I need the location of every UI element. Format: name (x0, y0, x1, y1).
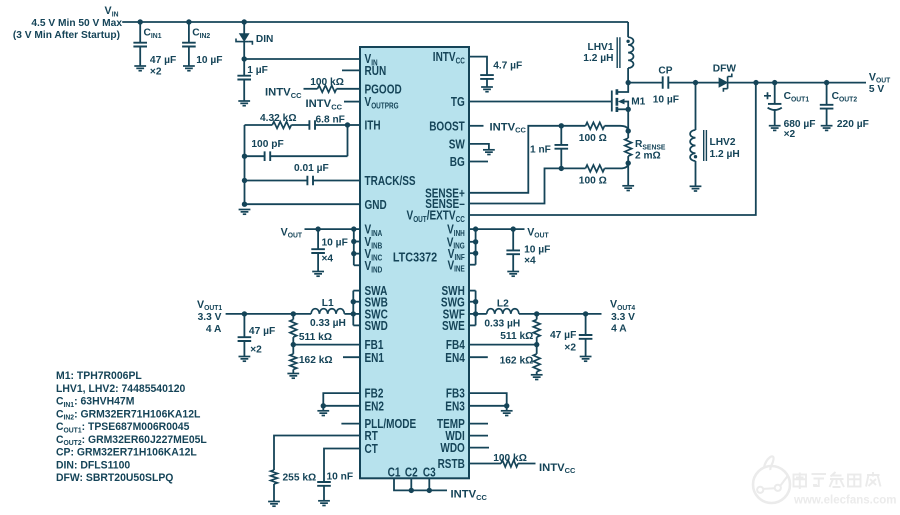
svg-text:CC: CC (476, 493, 487, 502)
svg-text:PGOOD: PGOOD (365, 82, 402, 96)
svg-text:DIN: DIN (256, 33, 274, 45)
svg-text:EN3: EN3 (445, 399, 465, 413)
svg-text:INA: INA (371, 229, 382, 238)
svg-text:0.33 µH: 0.33 µH (310, 317, 346, 329)
svg-text:OUT2: OUT2 (839, 96, 857, 103)
svg-text:47 µF: 47 µF (150, 54, 177, 66)
svg-text:CC: CC (291, 91, 302, 100)
svg-text:C3: C3 (423, 465, 436, 479)
svg-text:OUT1: OUT1 (791, 96, 809, 103)
svg-text:4.7 µF: 4.7 µF (493, 60, 523, 72)
svg-text:255 kΩ: 255 kΩ (283, 472, 317, 484)
svg-text:1.2 µH: 1.2 µH (710, 148, 740, 160)
svg-text:INC: INC (371, 254, 382, 263)
svg-text:TG: TG (451, 95, 465, 109)
svg-text:RT: RT (365, 429, 379, 443)
svg-text:3.3 V: 3.3 V (611, 311, 635, 323)
svg-text:SW: SW (449, 138, 465, 152)
svg-text:CC: CC (456, 215, 465, 224)
svg-text:1 nF: 1 nF (530, 144, 551, 156)
svg-text:C2: C2 (405, 465, 418, 479)
svg-text:CC: CC (565, 466, 576, 475)
svg-text:1.2 µH: 1.2 µH (583, 52, 613, 64)
svg-text:10 µF: 10 µF (653, 93, 680, 105)
svg-text:DFW: DFW (713, 63, 736, 75)
svg-text:IND: IND (371, 265, 382, 274)
svg-text:CC: CC (456, 57, 465, 66)
svg-text:10 µF: 10 µF (322, 237, 349, 249)
svg-text:RSTB: RSTB (438, 457, 465, 471)
svg-text:IN2: IN2 (200, 33, 211, 40)
svg-text:OUT1: OUT1 (64, 425, 82, 434)
svg-text:CC: CC (515, 126, 526, 135)
svg-text:INB: INB (371, 242, 382, 251)
svg-text:×2: ×2 (150, 65, 162, 77)
svg-text:www.elecfans.com: www.elecfans.com (793, 495, 896, 507)
svg-text:INE: INE (454, 265, 465, 274)
svg-text:LHV2: LHV2 (710, 136, 736, 148)
svg-text:OUT: OUT (534, 233, 549, 240)
svg-text:100 pF: 100 pF (251, 138, 284, 150)
svg-text:6.8 nF: 6.8 nF (316, 113, 346, 125)
svg-text:CP: CP (658, 65, 672, 77)
svg-text:GND: GND (365, 198, 387, 212)
svg-text:100 kΩ: 100 kΩ (310, 76, 344, 88)
svg-text:100 kΩ: 100 kΩ (493, 452, 527, 464)
svg-text:INTV: INTV (539, 462, 565, 474)
svg-text:0.33 µH: 0.33 µH (484, 317, 520, 329)
svg-text:×2: ×2 (250, 343, 262, 355)
svg-text:EN2: EN2 (365, 399, 385, 413)
svg-text:IN1: IN1 (151, 33, 162, 40)
svg-text:LHV1, LHV2: 74485540120: LHV1, LHV2: 74485540120 (56, 383, 185, 395)
svg-text:IN2: IN2 (64, 413, 75, 422)
svg-text:×2: ×2 (784, 128, 796, 140)
svg-text:TRACK/SS: TRACK/SS (365, 174, 416, 188)
svg-text:LTC3372: LTC3372 (393, 249, 437, 264)
svg-text:ING: ING (453, 242, 464, 251)
svg-text:M1: M1 (631, 96, 645, 108)
svg-text:: TPSE687M006R0045: : TPSE687M006R0045 (82, 421, 190, 433)
svg-text:CT: CT (365, 442, 379, 456)
svg-text:511 kΩ: 511 kΩ (500, 330, 533, 342)
svg-text:220 µF: 220 µF (837, 118, 869, 130)
svg-text:SWE: SWE (442, 319, 465, 333)
svg-text:×4: ×4 (524, 254, 536, 266)
svg-text:C1: C1 (388, 465, 401, 479)
svg-text:4 A: 4 A (206, 323, 222, 335)
svg-text:: GRM32ER71H106KA12L: : GRM32ER71H106KA12L (74, 408, 201, 420)
svg-text:WDO: WDO (440, 441, 465, 455)
svg-text:BOOST: BOOST (429, 119, 465, 133)
svg-text:INF: INF (455, 253, 465, 262)
svg-text:4.5 V Min 50 V Max: 4.5 V Min 50 V Max (31, 17, 122, 29)
svg-text:10 nF: 10 nF (327, 471, 354, 483)
svg-text:INTV: INTV (306, 98, 332, 110)
svg-text:CC: CC (331, 103, 342, 112)
svg-text:INTV: INTV (451, 489, 477, 501)
svg-text:L2: L2 (497, 297, 509, 309)
svg-text:162 kΩ: 162 kΩ (299, 354, 333, 366)
svg-text:INTV: INTV (265, 86, 291, 98)
svg-text:162 kΩ: 162 kΩ (500, 355, 534, 367)
svg-text:RUN: RUN (365, 64, 387, 78)
svg-text:DIN: DFLS1100: DIN: DFLS1100 (56, 459, 130, 471)
svg-text:2 mΩ: 2 mΩ (635, 150, 661, 162)
svg-text:IN1: IN1 (64, 400, 75, 409)
svg-text:OUTPRG: OUTPRG (371, 102, 398, 111)
svg-text:SWD: SWD (365, 319, 388, 333)
svg-text:×2: ×2 (564, 341, 576, 353)
svg-text:×4: ×4 (322, 253, 334, 265)
svg-text:1 µF: 1 µF (247, 64, 268, 76)
svg-text:EN4: EN4 (445, 351, 465, 365)
svg-text:/EXTV: /EXTV (427, 209, 456, 223)
svg-text:4.32 kΩ: 4.32 kΩ (260, 112, 297, 124)
svg-text:OUT: OUT (413, 215, 427, 224)
svg-text:(3 V Min After Startup): (3 V Min After Startup) (13, 29, 120, 41)
svg-text:OUT: OUT (288, 233, 303, 240)
svg-text:10 µF: 10 µF (196, 54, 223, 66)
svg-text:100 Ω: 100 Ω (579, 175, 607, 187)
svg-text:0.01 µF: 0.01 µF (294, 162, 329, 174)
svg-text:47 µF: 47 µF (550, 329, 577, 341)
svg-text:BG: BG (450, 155, 465, 169)
svg-text:511 kΩ: 511 kΩ (299, 331, 332, 343)
svg-text:: 63HVH47M: : 63HVH47M (74, 396, 134, 408)
svg-text:CP: GRM32ER71H106KA12L: CP: GRM32ER71H106KA12L (56, 447, 197, 459)
svg-text:4 A: 4 A (611, 323, 627, 335)
svg-text:DFW: SBRT20U50SLPQ: DFW: SBRT20U50SLPQ (56, 472, 173, 484)
svg-text:INTV: INTV (490, 121, 516, 133)
svg-text:L1: L1 (322, 297, 334, 309)
svg-text:EN1: EN1 (365, 351, 385, 365)
svg-text:M1: TPH7R006PL: M1: TPH7R006PL (56, 370, 142, 382)
svg-text:47 µF: 47 µF (249, 325, 276, 337)
svg-text:INH: INH (454, 229, 465, 238)
svg-text:ITH: ITH (365, 119, 381, 133)
svg-text:5 V: 5 V (869, 83, 884, 95)
svg-text:: GRM32ER60J227ME05L: : GRM32ER60J227ME05L (82, 434, 208, 446)
svg-text:INTV: INTV (433, 50, 456, 64)
svg-text:3.3 V: 3.3 V (198, 311, 222, 323)
svg-text:100 Ω: 100 Ω (579, 132, 607, 144)
